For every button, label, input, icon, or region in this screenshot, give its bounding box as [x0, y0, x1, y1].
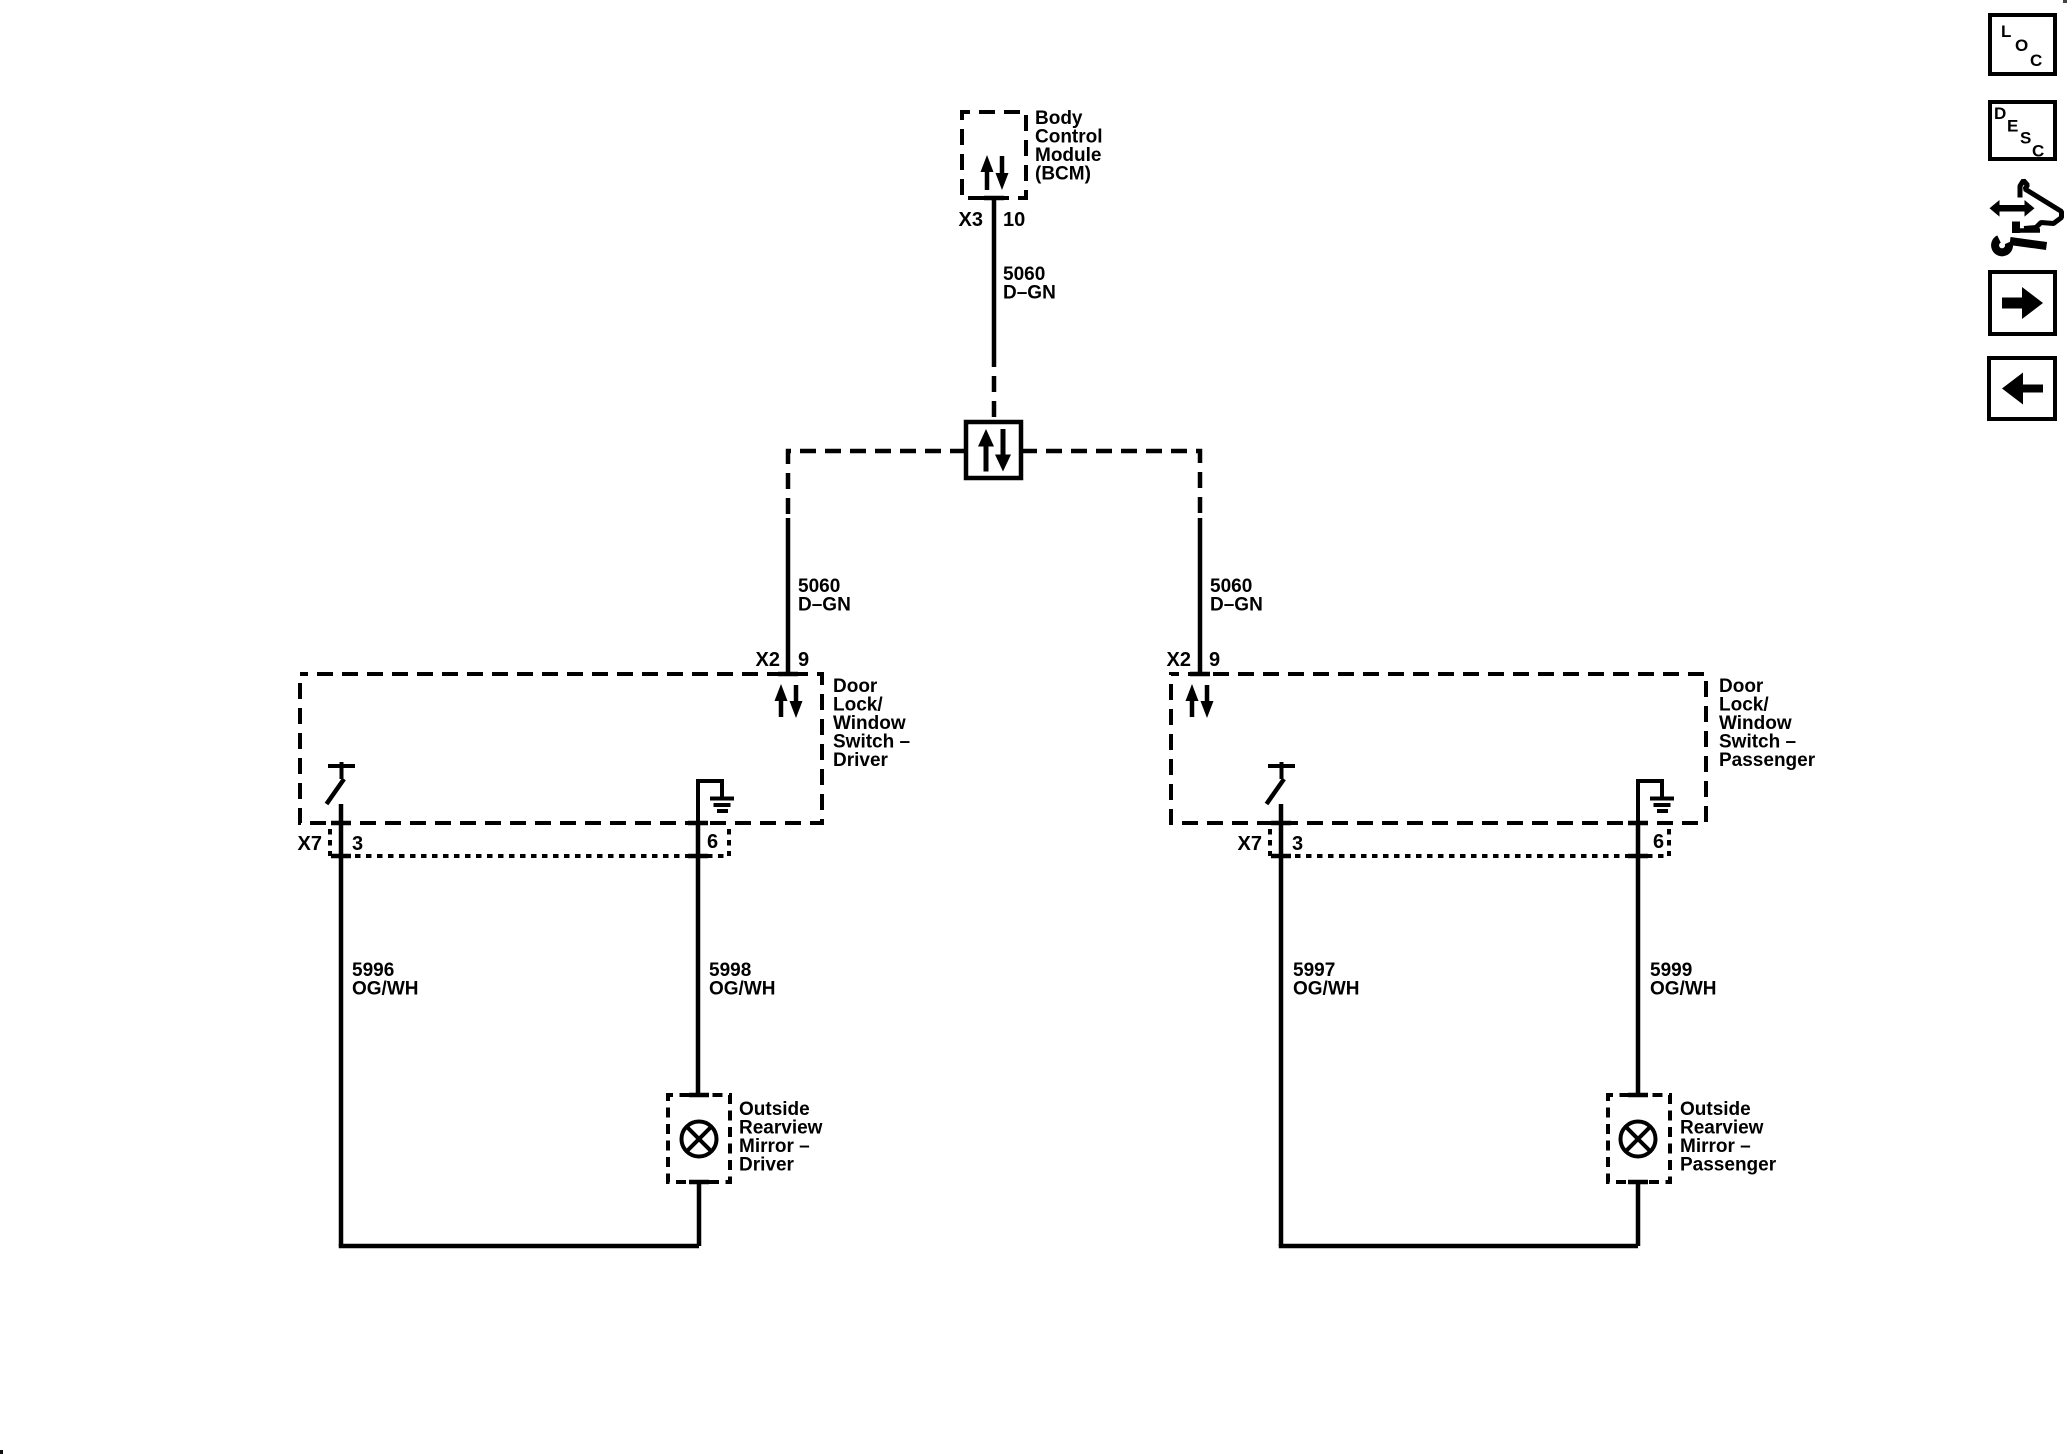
- wire 5060 from BCM solid segment: [992, 198, 997, 351]
- BCM label text: [1035, 108, 1103, 185]
- wire label 5060 D-GN (right branch): [1210, 576, 1263, 616]
- pin label X2 (passenger switch): [1167, 649, 1191, 671]
- svg-text:D–GN: D–GN: [798, 595, 851, 616]
- svg-text:9: 9: [1209, 649, 1220, 671]
- page corner mark bottom-left: [0, 1450, 3, 1454]
- BCM internal up/down arrow symbol: [981, 155, 1009, 190]
- splice/pass-through symbol S1 (solid box with arrows): [966, 422, 1021, 478]
- svg-text:Passenger: Passenger: [1680, 1155, 1777, 1176]
- pin label 6 (passenger): [1653, 831, 1664, 853]
- driver switch internal up/down arrow symbol: [775, 684, 803, 718]
- passenger mirror motor circle-X symbol: [1621, 1122, 1656, 1157]
- left branch solid wire 5060: [786, 518, 791, 674]
- pin label 9 (driver switch): [798, 649, 809, 671]
- driver mirror pin ticks: [689, 1095, 709, 1182]
- svg-text:(BCM): (BCM): [1035, 164, 1091, 185]
- svg-text:C: C: [2032, 142, 2044, 161]
- svg-text:Passenger: Passenger: [1719, 750, 1816, 771]
- motor M2 Outside Rearview Mirror - Passenger dashed box: [1608, 1095, 1670, 1182]
- passenger switch bottom pin tick (pin 3): [1271, 821, 1291, 826]
- svg-text:C: C: [2030, 51, 2042, 70]
- driver mirror label text: [739, 1099, 823, 1176]
- X7 passenger wire ticks: [1271, 854, 1648, 859]
- svg-text:D–GN: D–GN: [1003, 283, 1056, 304]
- svg-text:O: O: [2015, 36, 2028, 55]
- driver mirror motor circle-X symbol: [682, 1122, 717, 1157]
- svg-text:X7: X7: [298, 833, 322, 855]
- switch S2 Door Lock/Window Switch - Driver dashed box: [300, 674, 822, 823]
- svg-text:OG/WH: OG/WH: [352, 979, 419, 1000]
- wire label 5996 OG/WH: [352, 960, 419, 1000]
- switch S3 Door Lock/Window Switch - Passenger dashed box: [1171, 674, 1706, 823]
- wire 5999 OG/WH (passenger switch pin 6 down to mirror): [1636, 823, 1641, 1095]
- svg-text:D: D: [1994, 104, 2006, 123]
- connector X7 (driver) dotted line: [330, 829, 729, 856]
- svg-text:10: 10: [1003, 209, 1025, 231]
- svg-text:X7: X7: [1238, 833, 1262, 855]
- driver switch bottom pin tick (pin 3): [331, 821, 351, 826]
- bottom joining wire (passenger): [1281, 1244, 1638, 1246]
- svg-text:6: 6: [1653, 831, 1664, 853]
- driver switch contact symbol: [327, 762, 356, 804]
- wire label 5998 OG/WH: [709, 960, 776, 1000]
- wire 5997 OG/WH (passenger switch pin 3 down): [1279, 804, 1284, 1246]
- wire label 5999 OG/WH: [1650, 960, 1717, 1000]
- pin label 6 (driver): [707, 831, 718, 853]
- pin label 9 (passenger switch): [1209, 649, 1220, 671]
- driver switch bottom pin tick (pin 6): [688, 821, 708, 826]
- svg-text:X2: X2: [756, 649, 780, 671]
- svg-text:3: 3: [352, 833, 363, 855]
- svg-text:OG/WH: OG/WH: [1650, 979, 1717, 1000]
- wire 5996 OG/WH (driver switch pin 3 down): [339, 804, 344, 1246]
- wire below driver mirror: [697, 1182, 702, 1246]
- svg-text:X3: X3: [959, 209, 983, 231]
- wire label 5060 D-GN (top): [1003, 264, 1056, 304]
- svg-text:D–GN: D–GN: [1210, 595, 1263, 616]
- svg-text:3: 3: [1292, 833, 1303, 855]
- wire label 5997 OG/WH: [1293, 960, 1360, 1000]
- icon previous-page left arrow box: [1989, 358, 2055, 419]
- passenger switch bottom pin tick (pin 6): [1628, 821, 1648, 826]
- wire below passenger mirror: [1636, 1182, 1641, 1246]
- svg-text:OG/WH: OG/WH: [1293, 979, 1360, 1000]
- svg-text:OG/WH: OG/WH: [709, 979, 776, 1000]
- pin label X2 (driver switch): [756, 649, 780, 671]
- connector label X7 (driver): [298, 833, 322, 855]
- dashed wire from splice to left branch: [788, 451, 966, 518]
- passenger switch pin tick at X2/9: [1190, 672, 1210, 677]
- BCM pin tick at X3/10: [984, 196, 1004, 201]
- passenger switch contact symbol: [1267, 762, 1296, 804]
- bottom joining wire (driver): [341, 1244, 699, 1246]
- module U1 Body Control Module (BCM) dashed box: [962, 112, 1026, 198]
- pin label 10: [1003, 209, 1025, 231]
- icon next-page right arrow box: [1990, 272, 2055, 334]
- svg-text:9: 9: [798, 649, 809, 671]
- page corner mark top-right: [2063, 0, 2067, 3]
- passenger switch label text: [1719, 676, 1816, 771]
- connector label X7 (passenger): [1238, 833, 1262, 855]
- pin label 3 (passenger): [1292, 833, 1303, 855]
- icon LOC box: [1990, 15, 2055, 74]
- pin label X3: [959, 209, 983, 231]
- svg-text:S: S: [2020, 129, 2031, 148]
- svg-text:X2: X2: [1167, 649, 1191, 671]
- ground symbol inside driver switch: [698, 781, 734, 823]
- passenger mirror label text: [1680, 1099, 1777, 1176]
- svg-text:L: L: [2001, 22, 2011, 41]
- icon DESC box: [1990, 102, 2055, 161]
- svg-text:6: 6: [707, 831, 718, 853]
- motor M1 Outside Rearview Mirror - Driver dashed box: [668, 1095, 730, 1182]
- svg-text:E: E: [2007, 117, 2018, 136]
- svg-text:Driver: Driver: [739, 1155, 795, 1176]
- passenger mirror pin ticks: [1628, 1095, 1648, 1182]
- wire 5998 OG/WH (driver switch pin 6 down to mirror): [696, 823, 701, 1095]
- passenger switch internal up/down arrow symbol: [1186, 684, 1214, 718]
- dashed wire from splice to right branch: [1021, 451, 1200, 518]
- X7 driver wire ticks: [331, 854, 708, 859]
- driver switch label text: [833, 676, 910, 771]
- wire 5060 dashed segment to splice: [992, 351, 997, 420]
- pin label 3 (driver): [352, 833, 363, 855]
- connector X7 (passenger) dotted line: [1270, 829, 1669, 856]
- right branch solid wire 5060: [1198, 518, 1203, 674]
- svg-text:Driver: Driver: [833, 750, 889, 771]
- icon harness routing (double arrow, outline, wrench): [1990, 181, 2062, 253]
- wire label 5060 D-GN (left branch): [798, 576, 851, 616]
- driver switch pin tick at X2/9: [778, 672, 798, 677]
- ground symbol inside passenger switch: [1638, 781, 1674, 823]
